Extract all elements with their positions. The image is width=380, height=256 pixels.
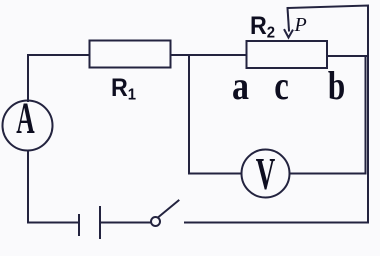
wire: node between R1 and R2 (junction at x=189): [171, 54, 246, 56]
wiper arrowhead: [285, 30, 293, 38]
svg-text:a: a: [232, 65, 249, 109]
wire: voltmeter loop left vertical and bottom to V: [189, 55, 242, 174]
potentiometer R2 body: [247, 41, 328, 68]
resistor R1 body: [90, 41, 171, 68]
switch S1 lever: [159, 201, 179, 218]
ammeter A1 circle: [3, 101, 53, 151]
wire: top-left corner, ammeter branch up to resistor R1: [28, 55, 89, 101]
wire: wiper to top-right corner and right rail down to bottom: [289, 6, 369, 223]
svg-text:b: b: [328, 63, 345, 108]
svg-text:V: V: [256, 150, 276, 200]
svg-text:A: A: [16, 93, 34, 142]
svg-text:c: c: [274, 63, 289, 108]
battery B1 long plate (positive): [99, 207, 101, 238]
wire: switch to bottom-right corner: [185, 222, 368, 224]
switch S1 pivot circle: [151, 217, 160, 226]
voltmeter V1 circle: [242, 150, 290, 198]
wire: voltmeter to right side: [290, 173, 366, 175]
wire: bottom from battery to switch: [100, 222, 151, 224]
wire: R2 terminal b to right rail: [327, 55, 368, 57]
wiper arrow shaft of R2: [288, 8, 290, 31]
svg-text:P: P: [294, 14, 307, 36]
battery B1 short plate (negative): [78, 215, 80, 235]
wire: ammeter to bottom-left corner: [28, 151, 78, 223]
wire: voltmeter loop right vertical up to terminal b wire: [365, 56, 367, 174]
